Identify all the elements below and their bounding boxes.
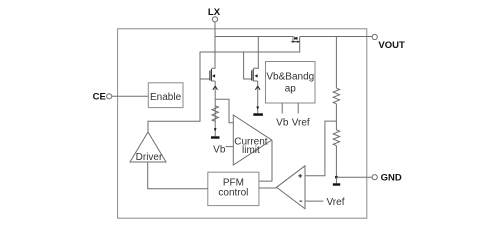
transistor Q2 bbox=[252, 69, 258, 81]
wire error amp output to PFM bbox=[259, 187, 277, 189]
driver U1 triangle bbox=[130, 132, 166, 162]
wire R2 to ground junction bbox=[335, 146, 337, 178]
block Enable bbox=[148, 83, 183, 108]
wire feedback tap to error comparator plus input bbox=[305, 121, 336, 176]
resistor Rsense bbox=[212, 106, 218, 122]
wire Vb input stub bbox=[226, 146, 234, 148]
arrow Q2 source current bbox=[255, 86, 260, 90]
wire Q1 source to sense resistor and ground bbox=[214, 81, 216, 136]
ground symbol Q2 chain bbox=[253, 113, 263, 116]
comparator current limit bbox=[233, 115, 271, 165]
wire Q2 source to ground bbox=[257, 81, 259, 113]
minus marker bbox=[299, 200, 302, 202]
svg-text:Driver: Driver bbox=[136, 152, 163, 163]
wire Driver output to FET gates bbox=[148, 42, 300, 132]
wire LX to Q1 drain bbox=[211, 22, 215, 68]
transistor M3 body dot bbox=[295, 37, 297, 39]
plus marker bbox=[298, 174, 302, 178]
transistor M3 channel bar bbox=[291, 41, 299, 43]
transistor Q1 bbox=[210, 69, 215, 81]
svg-text:GND: GND bbox=[381, 173, 402, 184]
wire VOUT rail to feedback divider bbox=[335, 37, 337, 89]
IC boundary box bbox=[118, 29, 367, 218]
wire R1 to R2 bbox=[335, 104, 337, 130]
wire LX rail to sync rectifier M3 bbox=[215, 37, 293, 42]
svg-text:VOUT: VOUT bbox=[378, 40, 405, 51]
terminal LX bbox=[212, 17, 217, 22]
terminal CE bbox=[107, 94, 112, 99]
svg-text:control: control bbox=[218, 188, 248, 199]
arrow Q1 source current bbox=[213, 86, 218, 90]
ground symbol divider bbox=[335, 177, 337, 183]
svg-text:limit: limit bbox=[242, 145, 260, 156]
svg-text:Vb: Vb bbox=[276, 117, 289, 128]
junction dot divider ground bbox=[335, 176, 338, 179]
transistor M3 gate stubs bbox=[295, 37, 297, 40]
svg-text:CE: CE bbox=[93, 91, 106, 102]
block PFM control bbox=[208, 172, 259, 205]
resistor R2 bbox=[333, 130, 339, 146]
wire Driver input from PFM bbox=[148, 162, 208, 189]
terminal GND bbox=[372, 175, 377, 180]
wire sense tap to current limit comparator bbox=[215, 99, 233, 123]
wire Q2 drain from LX rail bbox=[253, 37, 258, 69]
block Vb&Bandgap bbox=[266, 62, 316, 104]
terminal VOUT bbox=[372, 34, 377, 39]
svg-text:Vb&Bandg: Vb&Bandg bbox=[266, 72, 314, 83]
svg-text:Vref: Vref bbox=[292, 117, 310, 128]
wire error amp minus to Vref bbox=[305, 200, 323, 202]
wire gate branch to Q2 bbox=[244, 52, 252, 79]
comparator error amp bbox=[277, 166, 306, 209]
wire current limit output to PFM bbox=[259, 140, 272, 181]
svg-text:Enable: Enable bbox=[150, 92, 182, 103]
svg-text:Vref: Vref bbox=[327, 197, 345, 208]
arrow tick Q2 chain bbox=[256, 107, 259, 110]
ground symbol Q1 chain bbox=[211, 136, 220, 138]
transistor M3 left arrowhead bbox=[291, 41, 293, 43]
transistor M3 right arrowhead bbox=[298, 41, 300, 43]
resistor R1 bbox=[333, 88, 339, 104]
wire ground junction to GND terminal bbox=[336, 176, 372, 178]
svg-text:Vb: Vb bbox=[213, 145, 226, 156]
svg-text:ap: ap bbox=[285, 84, 297, 95]
stub Vref output bbox=[297, 103, 299, 114]
arrow tick sense chain bbox=[214, 128, 217, 131]
wire gate branch to Q1 bbox=[200, 78, 210, 80]
stub Vb output bbox=[281, 103, 283, 114]
wire sync rectifier to VOUT rail bbox=[300, 37, 372, 42]
wire CE to Enable block bbox=[112, 95, 149, 97]
